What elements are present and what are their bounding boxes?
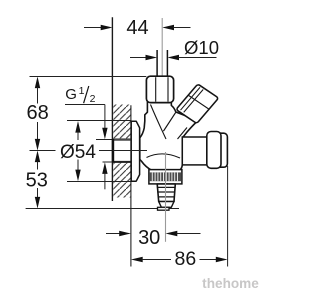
svg-text:30: 30 <box>138 227 160 249</box>
svg-text:Ø10: Ø10 <box>184 37 219 58</box>
svg-text:68: 68 <box>26 102 48 124</box>
svg-text:2: 2 <box>90 93 96 105</box>
svg-text:1: 1 <box>79 85 85 97</box>
svg-text:44: 44 <box>126 17 148 39</box>
svg-text:thehome: thehome <box>202 276 259 291</box>
svg-text:53: 53 <box>26 169 48 191</box>
svg-text:G: G <box>65 86 77 103</box>
svg-text:86: 86 <box>175 248 197 270</box>
